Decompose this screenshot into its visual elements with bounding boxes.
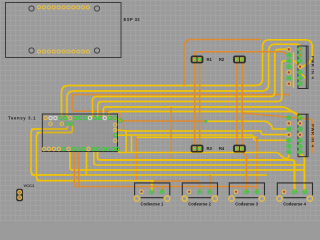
svg-text:PWR IN 4: PWR IN 4 — [311, 56, 316, 79]
svg-text:VCC1: VCC1 — [24, 183, 35, 188]
svg-text:R2: R2 — [219, 57, 225, 62]
svg-text:PWR IN 4: PWR IN 4 — [311, 124, 316, 147]
svg-text:Codeurse 3: Codeurse 3 — [235, 202, 258, 207]
svg-text:R3: R3 — [207, 146, 213, 151]
svg-text:Codeurse 1: Codeurse 1 — [140, 202, 163, 207]
svg-text:Codeurse 2: Codeurse 2 — [188, 202, 211, 207]
svg-text:Teensy 3.1: Teensy 3.1 — [8, 116, 36, 121]
svg-text:Codeurse 4: Codeurse 4 — [283, 202, 306, 207]
svg-text:R1: R1 — [207, 57, 213, 62]
svg-text:R4: R4 — [219, 146, 225, 151]
svg-text:ESP 32: ESP 32 — [124, 17, 141, 22]
